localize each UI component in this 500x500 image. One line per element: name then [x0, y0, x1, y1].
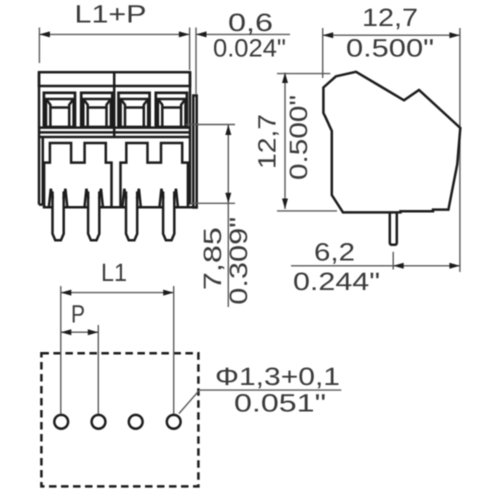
- 6,2 dimension line: [291, 265, 460, 267]
- side view body outline: [323, 72, 460, 213]
- svg-text:12,7: 12,7: [254, 114, 282, 169]
- dimension L1+P arrows: [39, 31, 189, 37]
- svg-text:0,6: 0,6: [228, 9, 273, 37]
- svg-text:0.500": 0.500": [346, 35, 434, 63]
- module 1 castellated outline: [44, 143, 111, 207]
- svg-text:0.244": 0.244": [293, 268, 380, 296]
- P arrows: [61, 329, 99, 335]
- module 2 castellated outline: [121, 143, 188, 207]
- L1 right extension line: [173, 286, 175, 414]
- footprint hole 4: [167, 415, 181, 429]
- svg-text:Φ1,3+0,1: Φ1,3+0,1: [215, 363, 340, 391]
- 12,7 / 6,2 right extension line: [459, 28, 461, 272]
- clamp window 2: [81, 93, 112, 127]
- solder leg 2: [85, 189, 103, 240]
- 12,7 left extension line: [322, 28, 324, 78]
- 7,85 arrows: [225, 125, 231, 204]
- P dimension line: [61, 331, 99, 333]
- clamp window 4: [156, 93, 187, 127]
- svg-text:12,7: 12,7: [362, 4, 418, 32]
- 0,6 arrow: [196, 31, 207, 37]
- svg-text:P: P: [71, 301, 85, 329]
- dimension L1+P line: [39, 33, 189, 35]
- svg-text:7,85: 7,85: [199, 227, 227, 290]
- side view solder pin: [390, 212, 397, 244]
- footprint hole 1: [54, 415, 68, 429]
- 0,6 extension lines: [189, 28, 191, 71]
- solder leg 3: [122, 189, 140, 240]
- front view: mounting face line: [39, 136, 190, 139]
- svg-text:L1+P: L1+P: [75, 1, 147, 29]
- front view: body split line: [39, 131, 190, 134]
- 6,2 pin center extension line: [392, 252, 394, 270]
- svg-text:0.309": 0.309": [225, 217, 253, 305]
- front view: housing top band: [39, 72, 190, 86]
- 7,85 top extension tick: [186, 124, 235, 126]
- clamp window 1: [44, 93, 75, 127]
- 12,7 arrows: [323, 32, 460, 38]
- solder leg 1: [49, 189, 67, 240]
- hole diameter leader line: [179, 390, 341, 413]
- 12,7 vertical bottom extension tick: [277, 210, 337, 212]
- P right extension line: [97, 325, 99, 414]
- 12,7 vertical dimension line: [284, 73, 286, 210]
- front view: horizontal line below clamp row: [39, 126, 190, 129]
- footprint hole 2: [92, 415, 106, 429]
- 0,6 dimension line: [196, 33, 290, 35]
- L1 dimension line: [61, 292, 174, 294]
- 12,7 vertical top extension tick: [277, 73, 330, 75]
- 6,2 arrows: [393, 263, 460, 269]
- 12,7 vertical arrows: [282, 73, 288, 210]
- 7,85 dimension line: [227, 125, 229, 308]
- bottom face segments: [39, 205, 197, 208]
- svg-text:0.500": 0.500": [285, 95, 313, 180]
- svg-text:0.051": 0.051": [234, 390, 326, 418]
- svg-text:6,2: 6,2: [314, 239, 355, 267]
- svg-text:L1: L1: [101, 259, 127, 287]
- 12,7 top dimension line: [323, 34, 460, 36]
- front view: right flange (0.6mm): [193, 96, 196, 208]
- front view: center divider wall: [113, 72, 116, 137]
- footprint hole 3: [129, 415, 143, 429]
- footprint dashed outline: [41, 353, 198, 486]
- L1 left extension line: [60, 286, 62, 414]
- 7,85 bottom extension tick: [190, 202, 235, 204]
- dimension L1+P left extension line: [38, 28, 40, 64]
- front view: left outer wall: [38, 72, 41, 204]
- front view: left inner wall: [42, 137, 45, 205]
- svg-text:0.024": 0.024": [213, 35, 286, 63]
- clamp window 3: [119, 93, 150, 127]
- L1 arrows: [61, 290, 174, 296]
- front view: right outer wall: [189, 72, 192, 204]
- solder leg 4: [160, 189, 178, 240]
